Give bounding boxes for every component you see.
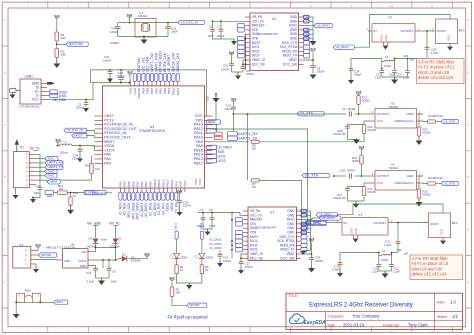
svg-text:VOUT: VOUT [78, 259, 86, 263]
svg-text:OUTPUT: OUTPUT [377, 174, 390, 178]
svg-text:U3_NRST: U3_NRST [218, 146, 233, 150]
wire antenna top run [370, 15, 451, 20]
ground [13, 302, 20, 318]
node U1_RFIO at U1 [301, 216, 340, 220]
node LED1 wire [174, 222, 179, 252]
title block [286, 293, 463, 329]
ground [205, 229, 211, 236]
capacitor C23 [117, 69, 125, 84]
wire U2 gnd drop [245, 34, 247, 70]
node U2_NSS (bottom pin flag) [123, 192, 127, 215]
svg-text:0Ω/NC: 0Ω/NC [423, 193, 431, 197]
ground [13, 188, 19, 199]
svg-text:VIN: VIN [82, 250, 87, 254]
node SWD [207, 120, 221, 124]
ground [348, 201, 365, 208]
svg-text:10K: 10K [61, 53, 66, 57]
node I2C1_SDA (top pin flag) [146, 56, 150, 82]
resistor R20 [417, 114, 430, 136]
node U3_OSC_IN flag left [64, 128, 95, 133]
ground near SWD [213, 93, 220, 120]
wire [118, 22, 178, 24]
capacitor C12 [33, 154, 42, 197]
gnd arrow USB [47, 82, 55, 85]
node UART1_RX (P1) [36, 161, 63, 165]
svg-text:R8: R8 [215, 128, 219, 132]
svg-text:1: 1 [27, 329, 29, 333]
svg-text:OUTPUT: OUTPUT [377, 112, 390, 116]
svg-text:RF2: RF2 [459, 29, 465, 33]
ground [232, 72, 244, 80]
wire [333, 175, 368, 177]
power flag 3v3 [359, 146, 365, 156]
svg-text:L1: L1 [64, 140, 68, 144]
svg-text:B: B [4, 70, 6, 74]
svg-text:Company:: Company: [328, 315, 345, 319]
power flag 3v3 [127, 14, 133, 24]
svg-text:OUTANT: OUTANT [373, 221, 386, 225]
svg-text:GND: GND [350, 228, 354, 234]
svg-text:LED1: LED1 [181, 256, 189, 260]
ground [310, 38, 317, 45]
capacitor C22 [103, 55, 113, 83]
ground [379, 271, 392, 278]
wire [259, 180, 301, 236]
resistor R4 [175, 259, 184, 274]
svg-text:short L3 and c29: short L3 and c29 [418, 70, 450, 75]
svg-text:NC: NC [252, 146, 256, 150]
svg-text:4: 4 [148, 4, 150, 8]
switch SW1 [17, 289, 41, 303]
svg-text:Vusb: Vusb [101, 238, 108, 242]
resistor R1 [55, 49, 66, 58]
svg-text:U F-MSOD W-L: U F-MSOD W-L [19, 105, 40, 109]
node UART1_RXD (top pin flag) [154, 52, 158, 81]
svg-text:Sheet:: Sheet: [437, 315, 447, 319]
capacitor C27 [333, 183, 368, 201]
node USB- [47, 93, 67, 98]
wire Vin join [93, 244, 116, 260]
svg-text:SX1280IMLTRT: SX1280IMLTRT [256, 226, 276, 230]
resistor R8 [214, 128, 222, 136]
svg-text:A.For RF SMD filter: A.For RF SMD filter [412, 256, 449, 261]
node UART1_TX [227, 136, 257, 141]
wire VOUT [93, 259, 122, 261]
resistor R13 [357, 96, 370, 115]
svg-text:16pF: 16pF [171, 30, 178, 34]
svg-text:2021-03-19: 2021-03-19 [343, 323, 365, 328]
node SPORT pullup [172, 297, 207, 308]
power flag 3v3 [54, 15, 60, 19]
svg-text:C20: C20 [340, 169, 345, 173]
node SPORT [85, 190, 120, 194]
oscillator X1 [368, 163, 423, 191]
power flag 3v3 near C11 [231, 98, 237, 107]
svg-text:VDD: VDD [183, 180, 187, 187]
svg-text:GND: GND [384, 35, 388, 41]
svg-text:1K: 1K [73, 194, 77, 198]
svg-text:0.8pF: 0.8pF [354, 73, 362, 77]
node EXTRA_CLK (top pin flag) [163, 52, 167, 81]
node SWCLK_DIO (top pin flag) [172, 52, 176, 81]
svg-text:GND: GND [304, 21, 309, 23]
spi flags of U2 [304, 41, 310, 58]
svg-text:Date:: Date: [328, 324, 337, 328]
svg-text:delete c21,c22,c23: delete c21,c22,c23 [418, 75, 454, 80]
ground P2 [33, 264, 39, 273]
svg-text:USB1: USB1 [25, 74, 34, 78]
svg-text:F1: F1 [359, 213, 363, 217]
svg-text:STM32F302C8T6: STM32F302C8T6 [139, 129, 165, 133]
ground [53, 58, 60, 69]
svg-text:C9: C9 [112, 270, 116, 274]
wire Vin_USB [47, 83, 93, 102]
wire [420, 30, 436, 32]
node U2_DIO1 (bottom pin flag) [153, 192, 157, 216]
resistor R14 [362, 125, 375, 142]
diode D2 [87, 226, 99, 249]
svg-text:4: 4 [148, 329, 150, 333]
led LED1 [169, 253, 188, 259]
ground [83, 108, 89, 112]
node BOOT/D0 [56, 42, 88, 46]
svg-text:Tony Clark: Tony Clark [408, 323, 429, 328]
svg-text:PB12: PB12 [194, 161, 203, 165]
diode D3 [122, 252, 141, 262]
capacitor C27 0.8pF [348, 59, 382, 85]
power flag 3v3 [55, 139, 61, 147]
svg-text:C12: C12 [36, 184, 42, 188]
node U1_RFIO at F1 in [305, 220, 338, 224]
svg-text:10nF: 10nF [208, 34, 215, 38]
node SWC (P1) [36, 174, 57, 178]
svg-text:10K: 10K [176, 291, 181, 295]
node U1_RFIO second [301, 221, 326, 225]
resistor R9 [214, 136, 222, 139]
svg-text:ADC: ADC [47, 194, 55, 198]
svg-text:0Ω/NC: 0Ω/NC [362, 99, 370, 103]
svg-text:1.2pF: 1.2pF [393, 269, 400, 273]
ground [10, 93, 16, 99]
resistor R16 NC/0R [423, 176, 443, 185]
svg-text:NF/0R: NF/0R [347, 169, 355, 173]
svg-text:D2: D2 [89, 237, 93, 241]
node UART1_TX (P1) [36, 165, 63, 169]
node SWD (P1) [36, 169, 57, 173]
wire PA12 to U1 nss [209, 129, 308, 231]
antenna RF1 [425, 213, 458, 240]
svg-text:C22: C22 [389, 72, 394, 76]
svg-text:100uH: 100uH [60, 151, 68, 155]
svg-text:GND: GND [440, 229, 444, 235]
capacitor C15 [165, 22, 178, 37]
wire [355, 31, 370, 47]
svg-text:C0603: C0603 [110, 41, 119, 45]
power flag 3v3 [356, 91, 362, 96]
wire [56, 19, 58, 32]
svg-text:F2: F2 [389, 16, 393, 20]
svg-text:100nF: 100nF [317, 70, 325, 74]
svg-text:IN: IN [344, 221, 347, 225]
svg-text:REV:: REV: [437, 301, 445, 305]
svg-text:GND/Stand by: GND/Stand by [395, 119, 415, 123]
svg-text:U2_RFIO: U2_RFIO [317, 23, 331, 27]
svg-text:VDD: VDD [198, 178, 202, 185]
svg-text:3: 3 [108, 329, 110, 333]
wire PA8 net [209, 141, 248, 143]
resistor R10 [60, 156, 101, 180]
svg-text:CONT: CONT [430, 222, 439, 226]
svg-text:C23: C23 [397, 72, 402, 76]
svg-text:SPORT: SPORT [41, 253, 52, 257]
svg-text:delete c32,c33,c34: delete c32,c33,c34 [412, 272, 448, 277]
capacitor C20 series [340, 169, 355, 179]
inductor L1 [56, 140, 72, 155]
node TX_EN (bottom pin flag) [174, 192, 178, 213]
svg-text:LED1: LED1 [218, 154, 226, 158]
svg-text:1: 1 [27, 4, 29, 8]
svg-text:NRST: NRST [74, 133, 82, 137]
svg-text:short L4 and c30: short L4 and c30 [412, 266, 444, 271]
svg-text:100n: 100n [34, 191, 41, 195]
svg-text:Drawn By:: Drawn By: [383, 324, 400, 328]
svg-text:10nF: 10nF [209, 224, 216, 228]
svg-text:GND: GND [447, 35, 451, 41]
svg-text:F: F [467, 280, 469, 284]
svg-text:Vin_P1: Vin_P1 [109, 222, 120, 226]
wire [393, 222, 429, 224]
node U1_NSS (bottom pin flag) [118, 192, 122, 215]
svg-text:8: 8 [310, 4, 312, 8]
easyeda logo [290, 314, 327, 326]
power flag 3v3 at P2 [35, 244, 41, 251]
svg-text:GND: GND [302, 228, 307, 230]
antenna RF2 [432, 19, 465, 46]
capacitor C11 [225, 104, 237, 132]
ground [96, 278, 110, 285]
connector P2 [13, 243, 36, 268]
svg-text:SX1280IMLTRT: SX1280IMLTRT [258, 32, 278, 36]
svg-text:D3: D3 [122, 252, 126, 256]
svg-text:LED2: LED2 [206, 256, 214, 260]
svg-text:BOOT/D0: BOOT/D0 [69, 42, 83, 46]
resistor R6 led [200, 259, 209, 274]
label Vin_USB [87, 222, 101, 226]
svg-text:6: 6 [229, 4, 231, 8]
capacitor C23 [403, 58, 410, 80]
capacitor C8 [310, 59, 325, 73]
svg-text:100nF: 100nF [315, 259, 323, 263]
svg-text:OUTANT: OUTANT [400, 29, 413, 33]
note box A (bottom) [410, 255, 463, 280]
ground [382, 77, 408, 84]
svg-text:L2: L2 [385, 55, 389, 59]
node SW1 net [54, 300, 68, 304]
svg-text:C29: C29 [403, 54, 408, 58]
ground [300, 248, 311, 255]
capacitor C31 [384, 223, 400, 253]
node NRST (P1) [36, 180, 60, 184]
left pin flags of U1 [236, 217, 243, 252]
svg-text:100nF: 100nF [223, 259, 231, 263]
svg-text:3: 3 [108, 4, 110, 8]
svg-text:SPORT: SPORT [189, 303, 200, 307]
power flag 3v3 output [127, 253, 150, 259]
svg-text:GND: GND [380, 35, 384, 41]
svg-text:1.5pF: 1.5pF [384, 243, 392, 247]
svg-text:16MHz: 16MHz [138, 14, 148, 18]
wire [118, 36, 168, 38]
node U2_BUSY (bottom pin flag) [144, 192, 148, 217]
node U3_OSC_IN [178, 20, 204, 24]
svg-text:2: 2 [67, 4, 69, 8]
label Vin_P1 [109, 222, 120, 226]
ground [177, 210, 183, 216]
node SPI1_MISO (bottom pin flag) [131, 192, 135, 219]
svg-text:A.For RF SMD filter: A.For RF SMD filter [418, 59, 455, 64]
svg-text:100nF: 100nF [103, 59, 111, 63]
node U2_RFIO at U2 [304, 23, 333, 27]
resistor R11 [58, 184, 68, 194]
gnd flags right of U1 [301, 209, 311, 248]
node U2_XTA [297, 112, 324, 116]
node LED1 [207, 154, 226, 158]
svg-text:GND: GND [304, 34, 309, 36]
svg-text:1.2pF: 1.2pF [375, 75, 382, 79]
ground leds [177, 274, 202, 290]
svg-text:NC: NC [252, 185, 256, 189]
wire [369, 15, 371, 32]
node LED2 [207, 158, 226, 162]
svg-text:1.2pF: 1.2pF [403, 75, 410, 79]
svg-text:TITLE:: TITLE: [288, 294, 298, 298]
ground [141, 36, 148, 44]
resistor R2 [170, 287, 180, 297]
svg-text:GND: GND [80, 264, 87, 268]
capacitor C29 [403, 54, 415, 61]
svg-text:1/1: 1/1 [452, 314, 458, 319]
svg-text:1pF: 1pF [404, 252, 409, 256]
power flag 3v3 under U3 [177, 190, 183, 201]
node U1_BUSY (bottom pin flag) [140, 192, 144, 217]
svg-text:SPORT: SPORT [94, 192, 106, 196]
spi flags of U1 [301, 235, 307, 252]
wire U1 left bus [220, 212, 233, 259]
node SPORT (P1) [84, 190, 106, 196]
ground [416, 136, 423, 145]
svg-text:VCC: VCC [377, 119, 384, 123]
svg-text:Fit F1 in place of L5: Fit F1 in place of L5 [412, 261, 449, 266]
svg-text:100nF: 100nF [110, 30, 118, 34]
svg-text:10K: 10K [61, 36, 66, 40]
svg-text:GND/Stand by: GND/Stand by [395, 181, 415, 185]
resistor R18 [352, 155, 363, 176]
svg-text:GND: GND [304, 30, 309, 32]
svg-text:100nF NC: 100nF NC [333, 196, 346, 200]
ground [447, 47, 453, 51]
node flag PA12 [207, 124, 217, 128]
svg-text:NC/0R: NC/0R [368, 190, 376, 194]
resistor R3 [55, 32, 66, 41]
capacitor C22 [389, 58, 402, 77]
svg-text:Vin_USB: Vin_USB [53, 98, 66, 102]
led LED2 [195, 253, 214, 259]
svg-text:E: E [4, 228, 6, 232]
svg-text:6: 6 [229, 329, 231, 333]
svg-text:SW1: SW1 [25, 289, 32, 293]
svg-text:GND: GND [302, 215, 307, 217]
power flag 3v3 [127, 71, 133, 84]
svg-text:Fit F2 in place of L2: Fit F2 in place of L2 [418, 65, 455, 70]
svg-text:U1_RFIO: U1_RFIO [308, 220, 322, 224]
svg-text:LED2: LED2 [218, 159, 226, 163]
node U1_RST (bottom pin flag) [157, 192, 161, 215]
node LED1 (bottom pin flag) [166, 192, 170, 210]
node BOOT/D0 (top pin flag) [137, 58, 141, 82]
node SPI1_MOSI (bottom pin flag) [136, 192, 140, 219]
svg-text:7: 7 [269, 329, 271, 333]
svg-text:1.5pF: 1.5pF [431, 51, 439, 55]
oscillator X2 [368, 102, 423, 129]
svg-text:1K: 1K [205, 268, 209, 272]
mcu U3 STM32F302C8T6 [95, 82, 213, 193]
svg-text:IN: IN [374, 29, 377, 33]
svg-text:U2_XTB: U2_XTB [444, 119, 455, 123]
wire VDD rail [91, 82, 130, 84]
capacitor C33 [372, 252, 382, 274]
connector USB1 [20, 74, 47, 104]
ground [440, 241, 446, 245]
svg-text:VCC: VCC [32, 98, 40, 102]
capacitor C19 [309, 253, 323, 266]
svg-text:100: 100 [59, 187, 64, 191]
ground [308, 266, 315, 273]
svg-text:GND: GND [407, 174, 415, 178]
svg-text:100nF NC: 100nF NC [333, 132, 346, 136]
svg-text:Vin_P1: Vin_P1 [30, 147, 41, 151]
capacitor C5 C7 on VDD_IN [208, 20, 251, 39]
wire TAB [36, 259, 58, 262]
inductor L4 [340, 249, 398, 262]
node ADC (P1) [36, 156, 58, 160]
svg-text:Vin_USB: Vin_USB [87, 222, 101, 226]
capacitor C34 0.4pF [333, 253, 344, 278]
power flag 3v3 near C10 [229, 51, 235, 55]
wire [72, 145, 95, 151]
resistor R15 [417, 176, 430, 198]
ground [221, 39, 237, 45]
resistor R17 [362, 187, 375, 202]
wire [68, 192, 85, 194]
svg-text:R10: R10 [85, 164, 90, 168]
svg-text:U1: U1 [270, 211, 274, 215]
svg-text:1K: 1K [180, 268, 184, 272]
svg-text:0.4pF: 0.4pF [333, 268, 341, 272]
svg-text:U1_DIO3: U1_DIO3 [209, 246, 222, 250]
svg-text:U3_OSC_IN: U3_OSC_IN [66, 128, 83, 132]
svg-text:3.9nH: 3.9nH [381, 258, 388, 262]
svg-text:2.2uF: 2.2uF [87, 280, 95, 284]
svg-text:U2: U2 [272, 17, 276, 21]
svg-text:SW1: SW1 [218, 150, 225, 154]
node U3_NRST [207, 145, 233, 149]
svg-text:5: 5 [188, 329, 190, 333]
node NRST flag left [72, 133, 95, 137]
crystal K1 [135, 11, 156, 37]
svg-text:DCC_FB: DCC_FB [250, 256, 263, 260]
node flag PA11 [207, 129, 217, 133]
regulator U4 AMS1117-3.3 [46, 242, 93, 268]
